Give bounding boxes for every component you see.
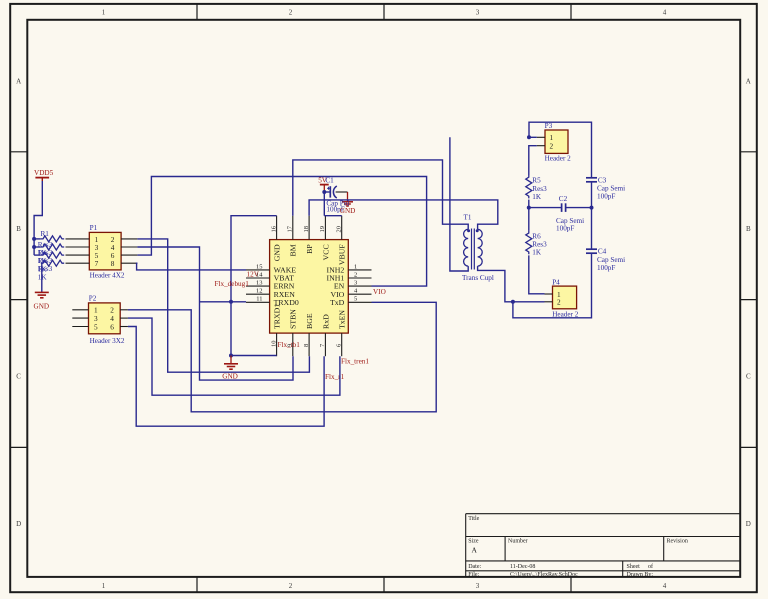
svg-text:B: B — [16, 225, 21, 233]
svg-text:2: 2 — [289, 582, 293, 590]
svg-text:Drawn By:: Drawn By: — [627, 572, 654, 578]
svg-text:4: 4 — [354, 288, 358, 295]
svg-text:1: 1 — [102, 9, 106, 17]
svg-text:GND: GND — [34, 303, 50, 311]
svg-text:P2: P2 — [89, 294, 97, 302]
svg-text:RxD: RxD — [321, 314, 330, 329]
svg-text:Flx_r1: Flx_r1 — [325, 373, 345, 381]
svg-text:of: of — [648, 563, 653, 570]
svg-text:A: A — [746, 78, 751, 86]
svg-text:File:: File: — [468, 572, 479, 578]
svg-text:Flx_tren1: Flx_tren1 — [341, 357, 369, 365]
svg-text:13: 13 — [256, 280, 263, 287]
svg-text:5: 5 — [94, 322, 98, 331]
svg-text:Trans Cupl: Trans Cupl — [462, 274, 494, 282]
svg-text:TRXD1: TRXD1 — [273, 304, 282, 329]
svg-text:Res3: Res3 — [38, 249, 53, 257]
svg-text:Sheet: Sheet — [627, 564, 641, 570]
svg-text:Revision: Revision — [667, 538, 688, 544]
svg-text:A: A — [16, 78, 21, 86]
svg-text:6: 6 — [110, 322, 114, 331]
svg-text:A: A — [472, 546, 478, 555]
svg-text:1: 1 — [102, 582, 106, 590]
svg-text:7: 7 — [95, 259, 99, 268]
svg-text:C2: C2 — [559, 195, 568, 203]
svg-text:P3: P3 — [545, 122, 553, 130]
svg-text:1K: 1K — [532, 249, 542, 257]
svg-text:2: 2 — [557, 298, 561, 307]
svg-text:Size: Size — [468, 538, 479, 544]
svg-text:2: 2 — [354, 271, 357, 278]
svg-text:VDD5: VDD5 — [34, 169, 54, 177]
svg-text:3: 3 — [354, 280, 357, 287]
svg-text:Date:: Date: — [468, 564, 481, 570]
svg-text:1: 1 — [354, 263, 357, 270]
svg-text:C1: C1 — [325, 177, 334, 185]
svg-text:GND: GND — [273, 244, 282, 261]
svg-text:2: 2 — [550, 142, 554, 151]
svg-text:Res3: Res3 — [38, 257, 53, 265]
svg-text:P1: P1 — [90, 224, 98, 232]
svg-text:C3: C3 — [598, 176, 607, 184]
svg-text:D: D — [746, 520, 751, 528]
svg-text:VIO: VIO — [373, 288, 386, 296]
svg-text:Number: Number — [508, 538, 528, 544]
svg-text:P4: P4 — [552, 278, 560, 286]
svg-text:Title: Title — [468, 516, 479, 522]
svg-text:15: 15 — [256, 263, 263, 270]
svg-text:GND: GND — [340, 207, 356, 215]
svg-text:TRXD0: TRXD0 — [274, 298, 299, 307]
svg-text:Res3: Res3 — [532, 185, 547, 193]
svg-text:Cap Semi: Cap Semi — [556, 217, 584, 225]
svg-text:3: 3 — [476, 582, 480, 590]
svg-text:8: 8 — [111, 259, 115, 268]
svg-text:Header 2: Header 2 — [552, 310, 579, 318]
svg-text:Header 3X2: Header 3X2 — [90, 337, 125, 345]
svg-text:12V: 12V — [247, 270, 260, 278]
svg-text:Res3: Res3 — [38, 241, 53, 249]
svg-text:C:\Users\..\FlexRay.SchDoc: C:\Users\..\FlexRay.SchDoc — [510, 572, 578, 578]
svg-text:Cap Semi: Cap Semi — [597, 256, 625, 264]
svg-text:STBN: STBN — [289, 309, 298, 329]
svg-text:16: 16 — [270, 225, 277, 232]
svg-text:17: 17 — [287, 225, 294, 232]
svg-text:C: C — [16, 373, 21, 381]
svg-text:11: 11 — [256, 296, 262, 303]
svg-text:D: D — [16, 520, 21, 528]
svg-text:VBUF: VBUF — [338, 244, 347, 265]
svg-text:Header 2: Header 2 — [545, 155, 572, 163]
svg-text:2: 2 — [289, 9, 293, 17]
svg-text:Res3: Res3 — [38, 265, 53, 273]
svg-text:TxEN: TxEN — [338, 310, 347, 329]
svg-text:Res3: Res3 — [532, 241, 547, 249]
svg-text:Cap Semi: Cap Semi — [597, 185, 625, 193]
svg-text:VCC: VCC — [321, 244, 330, 260]
svg-text:Header 4X2: Header 4X2 — [90, 272, 125, 280]
svg-text:C4: C4 — [598, 248, 607, 256]
svg-text:18: 18 — [303, 226, 310, 233]
svg-text:B: B — [746, 225, 751, 233]
svg-text:R6: R6 — [532, 232, 541, 240]
svg-text:R1: R1 — [41, 230, 50, 238]
svg-text:Flx_tb1: Flx_tb1 — [278, 341, 301, 349]
svg-text:BGE: BGE — [305, 313, 314, 329]
svg-text:100pF: 100pF — [556, 225, 574, 233]
svg-text:11-Dec-08: 11-Dec-08 — [510, 564, 535, 570]
svg-text:1K: 1K — [38, 273, 48, 281]
svg-text:8: 8 — [303, 344, 310, 347]
svg-text:20: 20 — [335, 226, 342, 233]
svg-text:12: 12 — [256, 288, 263, 295]
svg-text:4: 4 — [663, 9, 667, 17]
svg-text:1K: 1K — [532, 193, 542, 201]
svg-text:BP: BP — [305, 244, 314, 254]
svg-text:100pF: 100pF — [597, 264, 615, 272]
svg-text:BM: BM — [289, 244, 298, 256]
svg-text:GND: GND — [222, 372, 238, 380]
svg-text:C: C — [746, 373, 751, 381]
svg-text:100pF: 100pF — [597, 193, 615, 201]
svg-text:10: 10 — [270, 341, 277, 348]
svg-text:19: 19 — [319, 226, 326, 233]
svg-text:Flx_debug1: Flx_debug1 — [215, 280, 250, 288]
svg-text:3: 3 — [476, 9, 480, 17]
svg-text:4: 4 — [663, 582, 667, 590]
svg-text:R5: R5 — [532, 177, 541, 185]
svg-text:5: 5 — [354, 296, 357, 303]
svg-text:TxD: TxD — [330, 298, 345, 307]
svg-text:T1: T1 — [464, 214, 472, 222]
